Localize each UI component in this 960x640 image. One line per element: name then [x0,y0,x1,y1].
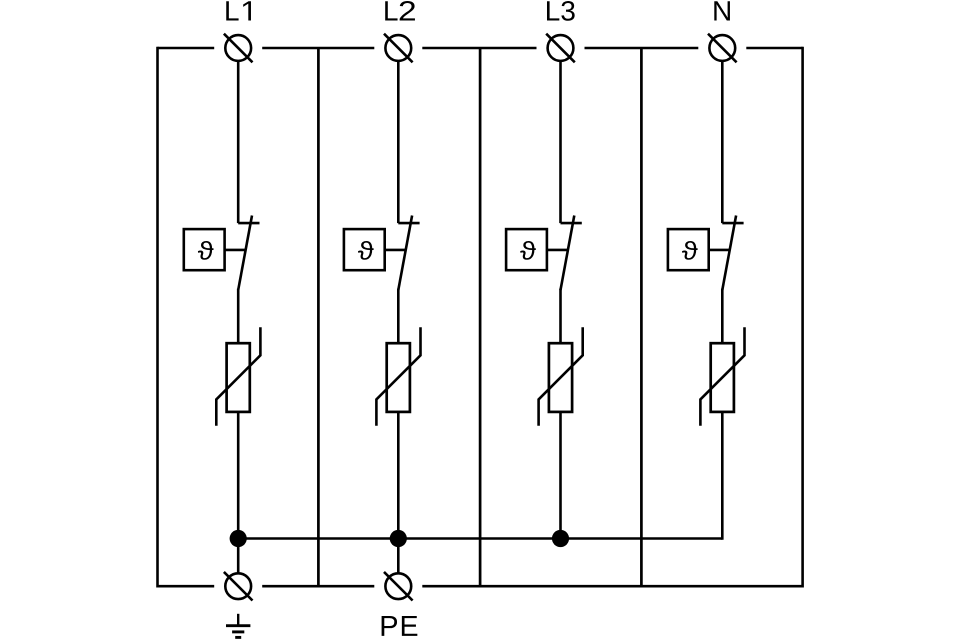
thermal trip device box (ϑ) L3 [506,229,547,270]
wire: bus to PE terminal 2 [397,539,400,575]
junction node L1-PE bus [230,530,247,547]
PE terminal 2 (circle with slash) [384,572,413,601]
label L2 [385,1,415,21]
varistor L3 (rectangle with strike line) [539,327,583,426]
disconnector switch L2 (fixed contact and blade) [398,216,419,291]
label L1 [226,1,251,20]
wire: varistor L1 to PE bus [237,412,240,539]
PE terminal 1 (circle with slash) [224,572,253,601]
wire: bus to PE terminal 1 [237,539,240,575]
wire: varistor L3 to PE bus [559,412,562,539]
wire: thermal box to switch blade N [709,249,730,252]
wire: L3 terminal to disconnector [559,61,562,223]
label L3 [547,1,575,21]
varistor L2 (rectangle with strike line) [376,327,420,426]
terminal L2 (circle with slash) [384,34,413,63]
terminal L1 (circle with slash) [224,34,253,63]
varistor N (rectangle with strike line) [700,327,744,426]
wire: switch to varistor L2 [397,289,400,345]
wire: thermal box to switch blade L2 [385,249,406,252]
wire: thermal box to switch blade L1 [225,249,246,252]
disconnector switch L1 (fixed contact and blade) [238,216,259,291]
wire: top border segment [585,47,699,50]
wire: switch to varistor L1 [237,289,240,345]
wire: top border segment [422,47,536,50]
junction node L2-PE bus [390,530,407,547]
label PE [382,616,418,636]
wire: top border segment [262,47,374,50]
wire: bottom border segment [262,585,374,588]
wire: top border segment [158,47,215,50]
wire: L1 terminal to disconnector [237,61,240,223]
wire: bottom border segment [158,585,215,588]
wire: N terminal to disconnector [721,61,724,223]
ground (earth symbol) [226,614,250,638]
module divider 2 [479,48,482,586]
enclosure outline: left border [156,47,159,588]
label N [714,1,730,20]
wire: thermal box to switch blade L3 [547,249,568,252]
thermal trip device box (ϑ) L1 [184,229,225,270]
thermal trip device box (ϑ) L2 [344,229,385,270]
module divider 1 [317,48,320,586]
wire: bottom border segment [422,585,802,588]
wire: L2 terminal to disconnector [397,61,400,223]
wire: switch to varistor L3 [559,289,562,345]
wire: top border segment [746,47,802,50]
wire: switch to varistor N [721,289,724,345]
junction node L3-PE bus [552,530,569,547]
thermal trip device box (ϑ) N [668,229,709,270]
wire: PE collecting bus [238,537,722,540]
varistor L1 (rectangle with strike line) [216,327,260,426]
wire: varistor N to PE bus [721,412,724,540]
disconnector switch L3 (fixed contact and blade) [561,216,582,291]
disconnector switch N (fixed contact and blade) [722,216,743,291]
terminal N (circle with slash) [708,34,737,63]
enclosure outline: right border [801,47,804,588]
terminal L3 (circle with slash) [546,34,575,63]
module divider 3 [640,48,643,586]
wire: varistor L2 to PE bus [397,412,400,539]
